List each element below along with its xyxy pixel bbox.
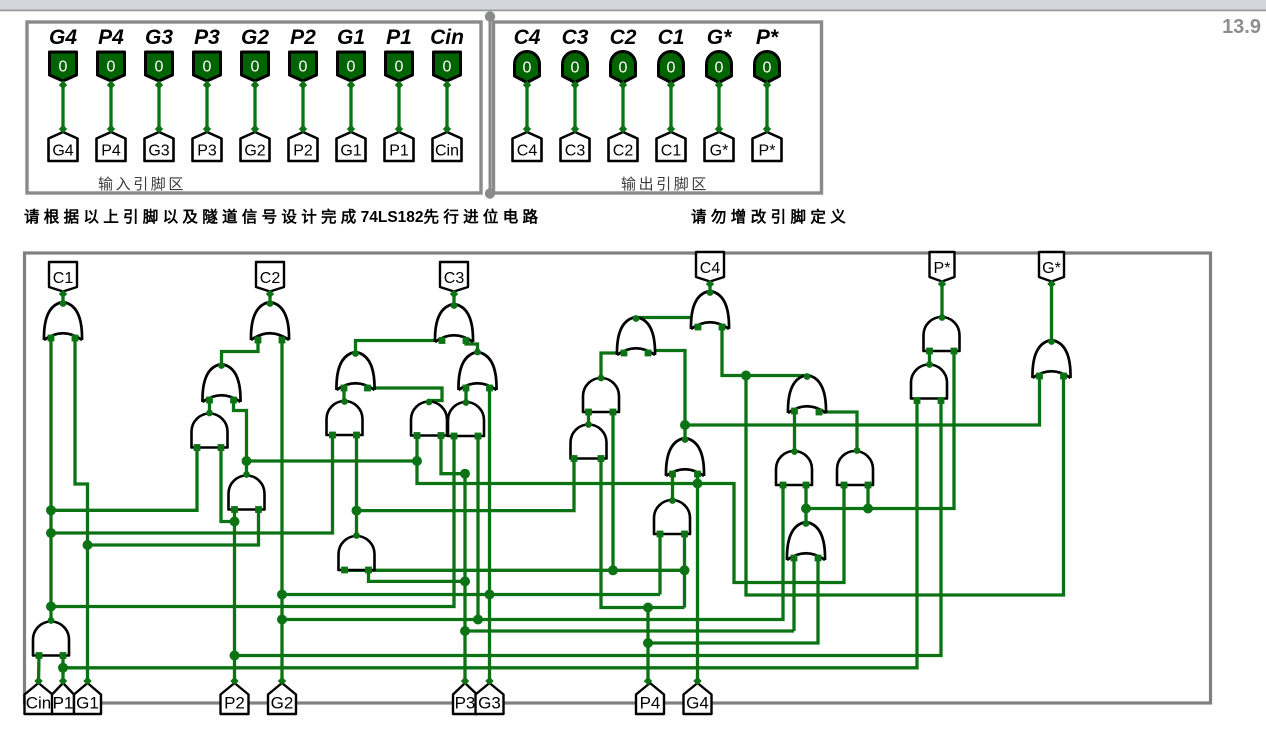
wire P2 branch row y656 to AND U21 in2	[235, 401, 942, 656]
wire pin C1 to tunnel	[669, 83, 672, 132]
gate output node (wire AND U15 out to OR U6 in2)	[243, 471, 250, 478]
tunnel G3 (pin area)	[145, 132, 174, 161]
or-gate U23 (C5)	[617, 317, 655, 355]
gate input port (wire AND U12 out to OR U23 in1)	[621, 350, 628, 357]
tunnel G4 (bottom)	[684, 683, 712, 714]
svg-text:G4: G4	[49, 26, 77, 49]
wire Cin tunnel to AND U14 in1	[37, 656, 41, 682]
tunnel P4 (pin area)	[97, 132, 126, 161]
gate input port (wire row y595 east to OR U22 in2)	[1060, 373, 1067, 380]
tunnel connection node (wire pin G1 to tunnel)	[347, 125, 355, 133]
svg-text:P2: P2	[224, 694, 245, 713]
gate input port (wire P2 branch row y656 to AND U21 in2)	[938, 397, 945, 404]
svg-text:Cin: Cin	[430, 26, 464, 49]
svg-text:P2: P2	[293, 143, 313, 160]
svg-text:C1: C1	[658, 26, 685, 49]
svg-text:G1: G1	[337, 26, 365, 49]
tunnel G* (pin area)	[705, 132, 734, 161]
tunnel connection node (wire pin P3 to tunnel)	[203, 81, 211, 89]
tunnel connection node (wire P2 riser to AND U15 in1)	[230, 677, 238, 685]
tunnel P2 (pin area)	[289, 132, 318, 161]
and-gate U17	[654, 500, 690, 534]
tunnel G1 (pin area)	[337, 132, 366, 161]
tunnel connection node (wire pin P1 to tunnel)	[395, 125, 403, 133]
gate input port (wire AND U16 in2 to P3 net)	[365, 567, 372, 574]
gate output node (wire AND U14 out to OR U1 in1 (P1Cin net riser))	[48, 617, 55, 624]
tunnel connection node (wire pin C2 to tunnel)	[619, 81, 627, 89]
gate input port (wire P2 riser to AND U15 in1)	[231, 506, 238, 513]
wire OR U19 out to AND U25 in2	[804, 485, 807, 522]
tunnel C1 (pin area)	[657, 132, 686, 161]
gate input port (wire AND U25 out to OR U24 in1)	[791, 408, 798, 415]
wire P2 riser to AND U15 in1	[233, 510, 236, 682]
tunnel connection node (wire pin G* to tunnel)	[715, 125, 723, 133]
svg-text:0: 0	[251, 59, 260, 76]
tunnel C4 (pin area)	[513, 132, 542, 161]
tunnel Cin (bottom)	[25, 683, 53, 714]
gate input port (wire AND U9 out to OR U3 in2)	[364, 385, 371, 392]
tunnel C2 (top)	[256, 262, 284, 292]
tunnel connection node (wire pin Cin to tunnel)	[443, 125, 451, 133]
svg-text:G4: G4	[686, 694, 709, 713]
wire P1Cin branch row y510 to AND U7 in1	[51, 448, 197, 511]
tunnel connection node (wire P1 tunnel to AND U14 in2)	[59, 677, 67, 685]
svg-text:P3: P3	[455, 694, 476, 713]
gate output node (wire OR U5 out to OR U4 in2)	[474, 349, 481, 356]
svg-text:C2: C2	[613, 143, 634, 160]
tunnel C2 (pin area)	[609, 132, 638, 161]
wire AND U13 out to AND U12 in1	[587, 412, 590, 423]
tunnel connection node (wire pin G3 to tunnel)	[155, 125, 163, 133]
gate input port (wire P4 branch row y643 to OR U19 in2)	[815, 555, 822, 562]
or-gate U19 (G4b)	[787, 522, 825, 560]
svg-text:G2: G2	[244, 143, 265, 160]
tunnel connection node (wire pin P4 to tunnel)	[107, 125, 115, 133]
svg-text:P1: P1	[389, 143, 409, 160]
wire AND U25 out to OR U24 in1	[793, 411, 796, 450]
gate input port (wire AND U10 in2 riser)	[475, 433, 482, 440]
gate input port (wire AND U13 in2 riser to P4 row y607)	[598, 455, 605, 462]
gate input port (wire AND U17 in1 riser)	[657, 531, 664, 538]
circuit bounding box	[25, 253, 1211, 703]
gate input port (wire Cin tunnel to AND U14 in1)	[36, 652, 43, 659]
gate output node (wire AND U10 out to OR U5 in1)	[463, 399, 470, 406]
wire AND U7 in2 to P2 net	[221, 448, 235, 522]
wire OR U24 out to OR UC4 in2	[722, 327, 807, 376]
svg-text:G1: G1	[76, 694, 99, 713]
gate input port (wire AND U7 out to OR U6 in1)	[206, 397, 213, 404]
wire G3 riser to OR U5 in2	[488, 388, 491, 681]
input pin box	[27, 22, 481, 193]
tunnel connection node (wire pin Cin to tunnel)	[443, 81, 451, 89]
gate input port (wire P1Cin branch row y606 to AND U10 in1)	[451, 433, 458, 440]
gate input port (wire row y510 to AND U13 in1)	[571, 455, 578, 462]
gate input port (wire G4 riser to OR U11 in2)	[694, 471, 701, 478]
tunnel connection node (wire C4 tunnel to OR output)	[706, 280, 714, 288]
and-gate U15	[229, 476, 265, 510]
wire junction (wire P2 riser to AND U15 in1)	[230, 651, 240, 661]
tunnel connection node (wire pin G2 to tunnel)	[251, 81, 259, 89]
tunnel C1 (top)	[49, 262, 77, 292]
gate input port (wire row y508 to AND U20 in2)	[951, 348, 958, 355]
gate output node (wire OR U24 out to OR UC4 in2)	[804, 373, 811, 380]
svg-text:13.9: 13.9	[1222, 16, 1261, 38]
wire G1 branch row y545 to AND U15 in2	[88, 510, 259, 546]
wire AND U17 in1 riser	[658, 534, 661, 595]
tunnel P* (pin area)	[753, 132, 782, 161]
wire OR U3 out to OR U4 in1	[356, 341, 443, 354]
gate input port (wire P1Cin branch row y533 to AND U8 in1)	[329, 432, 336, 439]
wire row y461	[247, 459, 418, 462]
wire junction (wire OR U11 out to OR U23 in2)	[680, 420, 690, 430]
svg-text:0: 0	[347, 59, 356, 76]
gate output node (wire AND U12 out to OR U23 in1)	[598, 375, 605, 382]
gate output node (wire C3 tunnel to OR output)	[451, 302, 458, 309]
wire P4 branch row y570 to AND U16 in1	[345, 569, 685, 572]
wire AND U16 in2 to P3 net	[369, 570, 466, 581]
svg-text:C3: C3	[562, 26, 589, 49]
gate output node (wire AND U7 out to OR U6 in1)	[206, 410, 213, 417]
wire pin G1 to tunnel	[349, 81, 352, 131]
wire row y510 to AND U13 in1	[357, 459, 575, 511]
or-gate U4 (C3)	[435, 304, 473, 342]
svg-text:C2: C2	[260, 270, 281, 287]
wire pin P3 to tunnel	[205, 81, 208, 131]
wire junction (wire P3 riser)	[460, 576, 470, 586]
svg-text:G3: G3	[145, 26, 173, 49]
wire pin G3 to tunnel	[157, 81, 160, 131]
tunnel connection node (wire P4 riser)	[644, 677, 652, 685]
wire junction (wire AND U17 in2 riser)	[680, 565, 690, 575]
wire row y483 from AND U9 in1 to AND U18 in1	[417, 436, 844, 583]
svg-text:P*: P*	[756, 26, 779, 49]
gate output node (wire AND U13 out to AND U12 in1)	[585, 421, 592, 428]
wire junction (wire G4 riser to OR U11 in2)	[693, 479, 703, 489]
svg-text:0: 0	[667, 60, 676, 77]
wire junction (wire AND U14 out to OR U1 in1 (P1Cin net riser))	[46, 528, 56, 538]
tunnel connection node (wire C3 tunnel to OR output)	[450, 290, 458, 298]
tunnel P1 (pin area)	[385, 132, 414, 161]
gate input port (wire G1 riser to OR U1 in2)	[72, 335, 79, 342]
wire AND U17 in2 riser	[683, 534, 686, 608]
wire junction (wire AND U18 in2 riser)	[863, 504, 873, 514]
or-gate U3	[336, 352, 374, 390]
wire OR U24 in2 to AND U18 out	[819, 412, 857, 449]
tunnel connection node (wire pin P3 to tunnel)	[203, 125, 211, 133]
tunnel connection node (wire G3 riser to OR U5 in2)	[485, 677, 493, 685]
tunnel P2 (bottom)	[221, 683, 249, 714]
wire OR U6 out to OR U2 in1	[222, 340, 259, 365]
tunnel connection node (wire G* tunnel to OR U22 output)	[1047, 280, 1055, 288]
svg-text:0: 0	[619, 60, 628, 77]
svg-text:0: 0	[763, 60, 772, 77]
gate input port (wire AND U8 out to OR U3 in1)	[341, 385, 348, 392]
svg-text:G*: G*	[707, 26, 732, 49]
tunnel connection node (wire pin P* to tunnel)	[763, 125, 771, 133]
svg-text:0: 0	[155, 59, 164, 76]
wire P4 riser	[646, 608, 649, 682]
svg-text:G*: G*	[710, 143, 729, 160]
gate output node (wire OR U19 out to AND U25 in2)	[803, 520, 810, 527]
wire junction (wire AND U12 in2 riser to P4 net)	[608, 565, 618, 575]
gate input port (wire AND U18 in2 riser)	[865, 482, 872, 489]
tunnel connection node (wire pin P2 to tunnel)	[299, 81, 307, 89]
gate input port (wire AND U12 in2 riser to P4 net)	[610, 409, 617, 416]
wire pin G* to tunnel	[717, 83, 720, 132]
wire junction (wire G2 riser to OR U2 in2)	[277, 615, 287, 625]
wire AND U10 out to OR U5 in1	[464, 388, 467, 401]
and-gate U14	[33, 622, 69, 656]
tunnel P* (top)	[930, 252, 955, 282]
wire G4 riser to OR U11 in2	[696, 474, 699, 681]
svg-text:C4: C4	[700, 260, 721, 277]
svg-text:输入引脚区: 输入引脚区	[98, 176, 186, 193]
gate output node (wire AND U17 out to OR U11 in1)	[669, 497, 676, 504]
gate input port (wire AND U10 out to OR U5 in1)	[463, 385, 470, 392]
or-gate U11	[666, 438, 704, 476]
tunnel connection node (wire pin C3 to tunnel)	[571, 125, 579, 133]
gate input port (wire P4 branch row y570 to AND U16 in1)	[341, 567, 348, 574]
wire junction (wire P4 riser)	[643, 638, 653, 648]
gate input port (wire AND U21 out to AND U20 in1)	[926, 348, 933, 355]
wire AND U21 out to AND U20 in1	[928, 351, 931, 364]
tunnel connection node (wire P* tunnel to AND U20 output)	[938, 280, 946, 288]
tunnel G3 (bottom)	[476, 683, 504, 714]
and-gate U20	[924, 317, 960, 351]
tunnel G4 (pin area)	[49, 132, 78, 161]
svg-text:0: 0	[571, 60, 580, 77]
and-gate U13	[571, 425, 607, 459]
wire P* tunnel to AND U20 output	[940, 282, 943, 318]
wire AND U13 in2 riser to P4 row y607	[601, 459, 685, 608]
wire pin P4 to tunnel	[109, 81, 112, 131]
svg-text:C2: C2	[610, 26, 637, 49]
gate input port (wire P1Cin branch row y510 to AND U7 in1)	[194, 444, 201, 451]
gate input port (wire row y483 from AND U9 in1 to AND U18 in1)	[841, 482, 848, 489]
wire P1 branch row y668 to AND U21 in1	[63, 401, 917, 668]
wire AND U17 out to OR U11 in1	[671, 474, 674, 499]
tunnel P3 (pin area)	[193, 132, 222, 161]
gate input port (wire G2 branch row y619 to AND U25 in1)	[780, 482, 787, 489]
tunnel G2 (bottom)	[268, 683, 296, 714]
tunnel connection node (wire pin G4 to tunnel)	[59, 125, 67, 133]
wire junction (wire OR U24 out to OR UC4 in2)	[741, 371, 751, 381]
wire G2 branch row y619 to AND U25 in1	[282, 485, 783, 620]
wire OR U23 out to OR UC4 in1	[636, 318, 698, 328]
gate input port (wire OR U11 out to OR U23 in2)	[645, 350, 652, 357]
svg-text:P*: P*	[934, 260, 951, 277]
gate input port (wire OR U6 out to OR U2 in1)	[255, 337, 262, 344]
tunnel connection node (wire pin P1 to tunnel)	[395, 81, 403, 89]
and-gate U18	[837, 451, 873, 485]
gate output node (wire AND U8 out to OR U3 in1)	[341, 398, 348, 405]
wire junction (wire P1 tunnel to AND U14 in2)	[58, 663, 68, 673]
wire C1 tunnel to OR output	[61, 292, 64, 304]
svg-text:P3: P3	[197, 143, 217, 160]
wire P1Cin branch row y533 to AND U8 in1	[51, 435, 333, 533]
gate input port (wire OR U19 out to AND U25 in2)	[803, 482, 810, 489]
svg-text:C1: C1	[53, 270, 74, 287]
svg-text:C1: C1	[661, 143, 682, 160]
or-gate U2 (C2)	[251, 302, 289, 340]
gate input port (wire AND U13 out to AND U12 in1)	[585, 409, 592, 416]
wire pin C3 to tunnel	[573, 83, 576, 132]
wire pin P2 to tunnel	[301, 81, 304, 131]
gate input port (wire P1 tunnel to AND U14 in2)	[60, 652, 67, 659]
tunnel C4 (top)	[696, 252, 724, 282]
gate input port (wire row y483 from AND U9 in1 to AND U18 in1)	[414, 432, 421, 439]
gate output node (wire OR U3 out to OR U4 in1)	[352, 350, 359, 357]
svg-text:0: 0	[523, 60, 532, 77]
tunnel connection node (wire pin G1 to tunnel)	[347, 81, 355, 89]
svg-text:G2: G2	[241, 26, 269, 49]
tunnel connection node (wire pin P* to tunnel)	[763, 81, 771, 89]
wire G2 riser to OR U2 in2	[280, 340, 283, 681]
gate output node (wire C4 tunnel to OR output)	[707, 289, 714, 296]
gate output node (wire C1 tunnel to OR output)	[60, 300, 67, 307]
wire junction (wire OR U19 out to AND U25 in2)	[801, 504, 811, 514]
tunnel connection node (wire pin C4 to tunnel)	[523, 81, 531, 89]
tunnel connection node (wire pin C1 to tunnel)	[667, 81, 675, 89]
or-gate UC4 (C4)	[691, 291, 729, 329]
tunnel connection node (wire pin P2 to tunnel)	[299, 125, 307, 133]
tunnel Cin (pin area)	[433, 132, 462, 161]
tunnel connection node (wire G1 riser to OR U1 in2)	[83, 677, 91, 685]
gate input port (wire AND U16 out to AND U8 in2)	[353, 432, 360, 439]
wire G1 riser to OR U1 in2	[75, 338, 88, 681]
tunnel G1 (bottom)	[74, 683, 101, 714]
svg-text:输出引脚区: 输出引脚区	[621, 176, 709, 193]
wire row y508 to AND U20 in2	[806, 351, 954, 509]
wire P1Cin branch row y606 to AND U10 in1	[51, 436, 454, 607]
wire AND U12 in2 riser to P4 net	[611, 412, 614, 570]
wire junction (wire P3 riser)	[460, 626, 470, 636]
svg-text:P4: P4	[640, 694, 661, 713]
or-gate U6	[202, 364, 240, 402]
wire AND U15 out to OR U6 in2	[234, 400, 247, 474]
gate output node (wire P* tunnel to AND U20 output)	[939, 314, 946, 321]
wire junction (wire P3 riser)	[460, 469, 470, 479]
wire pin P1 to tunnel	[397, 81, 400, 131]
svg-text:请根据以上引脚以及隧道信号设计完成74LS182先行进位电路: 请根据以上引脚以及隧道信号设计完成74LS182先行进位电路	[24, 207, 542, 226]
svg-text:P4: P4	[98, 26, 124, 49]
wire AND U18 in2 riser	[866, 485, 869, 509]
tunnel P1 (bottom)	[52, 683, 74, 714]
gate output node (wire AND U21 out to AND U20 in1)	[926, 361, 933, 368]
wire AND U9 in2 to P3 net	[441, 436, 465, 474]
wire pin C2 to tunnel	[621, 83, 624, 132]
tunnel C3 (pin area)	[561, 132, 590, 161]
wire C3 tunnel to OR output	[452, 292, 455, 306]
wire G* net row y425 to OR U22 in1	[685, 376, 1040, 425]
svg-text:Cin: Cin	[435, 143, 459, 160]
wire junction (wire row y594)	[485, 590, 495, 600]
wire pin G4 to tunnel	[61, 81, 64, 131]
gate input port (wire AND U7 in2 to P2 net)	[218, 444, 225, 451]
wire AND U7 out to OR U6 in1	[208, 400, 211, 412]
tunnel P3 (bottom)	[453, 683, 477, 714]
gate output node (wire AND U25 out to OR U24 in1)	[791, 448, 798, 455]
wire G* tunnel to OR U22 output	[1050, 282, 1053, 342]
tunnel G2 (pin area)	[241, 132, 270, 161]
tunnel connection node (wire G2 riser to OR U2 in2)	[278, 677, 286, 685]
gate output node (wire OR U23 out to OR UC4 in1)	[633, 315, 640, 322]
gate input port (wire G3 riser to OR U5 in2)	[486, 385, 493, 392]
and-gate U10	[448, 402, 484, 436]
tunnel connection node (wire pin G* to tunnel)	[715, 81, 723, 89]
tunnel connection node (wire pin G2 to tunnel)	[251, 125, 259, 133]
svg-text:C3: C3	[565, 143, 586, 160]
gate input port (wire AND U17 out to OR U11 in1)	[669, 471, 676, 478]
wire AND U8 out to OR U3 in1	[342, 388, 345, 400]
output pin box	[494, 22, 822, 193]
wire AND U14 out to OR U1 in1 (P1Cin net riser)	[49, 338, 52, 620]
wire P1 tunnel to AND U14 in2	[61, 656, 64, 682]
and-gate U9	[411, 402, 447, 436]
gate input port (wire P1 branch row y668 to AND U21 in1)	[914, 397, 921, 404]
wire OR U19 in1 riser to row y631	[792, 558, 795, 631]
wire junction (wire row y483 from AND U9 in1 to AND U18 in1)	[412, 456, 422, 466]
gate input port (wire OR U3 out to OR U4 in1)	[439, 337, 446, 344]
or-gate U5	[458, 352, 496, 390]
svg-text:P2: P2	[290, 26, 316, 49]
wire junction (wire AND U16 out to AND U8 in2)	[352, 506, 362, 516]
wire junction (wire AND U13 in2 riser to P4 row y607)	[643, 603, 653, 613]
wire junction (wire AND U14 out to OR U1 in1 (P1Cin net riser))	[46, 505, 56, 515]
wire P3 branch row y631	[465, 629, 794, 632]
svg-text:0: 0	[203, 59, 212, 76]
gate input port (wire G* net row y425 to OR U22 in1)	[1036, 373, 1043, 380]
wire P4 branch row y643 to OR U19 in2	[648, 558, 818, 643]
tunnel P4 (bottom)	[636, 683, 664, 714]
gate input port (wire OR U24 in2 to AND U18 out)	[816, 409, 823, 416]
tunnel connection node (wire pin C4 to tunnel)	[523, 125, 531, 133]
wire junction (wire AND U10 in2 riser)	[473, 615, 483, 625]
svg-text:0: 0	[395, 59, 404, 76]
tunnel connection node (wire pin G3 to tunnel)	[155, 81, 163, 89]
svg-text:P1: P1	[386, 26, 412, 49]
svg-text:P*: P*	[759, 143, 776, 160]
wire pin G2 to tunnel	[253, 81, 256, 131]
svg-text:0: 0	[715, 60, 724, 77]
gate input port (wire OR U23 out to OR UC4 in1)	[695, 324, 702, 331]
and-gate U16	[339, 536, 375, 570]
svg-text:C4: C4	[517, 143, 538, 160]
divider line with handles	[489, 17, 492, 194]
svg-text:G2: G2	[271, 694, 294, 713]
wire P3 riser	[463, 474, 466, 681]
gate input port (wire OR U24 out to OR UC4 in2)	[719, 324, 726, 331]
tunnel connection node (wire pin P4 to tunnel)	[107, 81, 115, 89]
and-gate U25	[776, 451, 812, 485]
svg-text:P1: P1	[53, 694, 74, 713]
svg-text:P4: P4	[101, 143, 121, 160]
gate input port (wire AND U9 in2 to P3 net)	[438, 432, 445, 439]
wire pin C4 to tunnel	[525, 83, 528, 132]
gate input port (wire G1 branch row y545 to AND U15 in2)	[255, 506, 262, 513]
svg-text:G3: G3	[478, 694, 501, 713]
gate input port (wire OR U5 out to OR U4 in2)	[463, 337, 470, 344]
gate output node (wire AND U9 out to OR U3 in2)	[426, 399, 433, 406]
tunnel connection node (wire pin G4 to tunnel)	[59, 81, 67, 89]
wire pin P* to tunnel	[765, 83, 768, 132]
tunnel connection node (wire G4 riser to OR U11 in2)	[693, 677, 701, 685]
svg-text:Cin: Cin	[26, 694, 52, 713]
svg-text:0: 0	[107, 59, 116, 76]
tunnel connection node (wire C2 tunnel to OR output)	[266, 290, 274, 298]
svg-text:C4: C4	[514, 26, 541, 49]
wire AND U10 in2 riser	[476, 436, 479, 620]
